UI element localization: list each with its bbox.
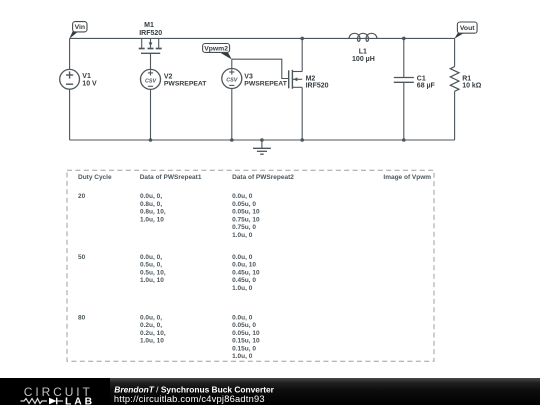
svg-text:68 µF: 68 µF — [417, 82, 436, 89]
label C1 value — [417, 75, 436, 89]
svg-text:LAB: LAB — [65, 396, 95, 405]
svg-text:PWSREPEAT: PWSREPEAT — [244, 81, 287, 88]
wire bottom rail — [70, 139, 455, 141]
svg-text:IRF520: IRF520 — [139, 30, 162, 37]
wire top rail — [70, 37, 455, 39]
svg-text:Vout: Vout — [460, 25, 475, 32]
svg-text:V1: V1 — [82, 73, 91, 80]
svg-text:0.2u, 10,: 0.2u, 10, — [140, 330, 166, 337]
resistor R1 — [450, 67, 459, 92]
svg-text:10 V: 10 V — [82, 81, 97, 88]
label V3 value — [244, 73, 287, 87]
svg-text:0.0u, 0,: 0.0u, 0, — [140, 193, 162, 200]
svg-text:0.0u, 0: 0.0u, 0 — [232, 314, 253, 321]
wire M2 source lead — [301, 87, 303, 140]
svg-text:CSV: CSV — [145, 79, 156, 85]
capacitor C1 — [394, 78, 414, 83]
wire V2 bottom lead — [150, 89, 152, 140]
label V1 value — [82, 73, 97, 87]
svg-text:0.0u, 10: 0.0u, 10 — [232, 262, 256, 269]
svg-text:80: 80 — [78, 314, 86, 321]
label M1 value — [139, 22, 162, 37]
svg-text:1.0u, 10: 1.0u, 10 — [140, 216, 164, 223]
svg-text:CSV: CSV — [226, 78, 237, 84]
svg-text:0.8u, 0,: 0.8u, 0, — [140, 201, 162, 208]
wire M2 drain lead — [301, 38, 303, 71]
ground — [253, 140, 271, 154]
source V2 — [141, 69, 161, 89]
label L1 value — [352, 48, 375, 63]
svg-text:M1: M1 — [144, 22, 154, 29]
svg-text:1.0u, 10: 1.0u, 10 — [140, 277, 164, 284]
svg-text:0.2u, 0,: 0.2u, 0, — [140, 322, 162, 329]
transistor M2 — [289, 70, 303, 89]
node junction bottom C1 — [402, 138, 406, 142]
svg-text:Data of PWSrepeat2: Data of PWSrepeat2 — [232, 174, 294, 181]
footer logo diode — [49, 398, 57, 405]
node junction bottom ground — [260, 138, 264, 142]
footer logo background — [0, 378, 110, 405]
svg-text:M2: M2 — [306, 75, 316, 82]
wire R1 bottom lead — [454, 91, 456, 140]
wire node Vpwm2 to M2 gate — [232, 59, 289, 78]
svg-text:L1: L1 — [359, 48, 367, 55]
node Vpwm2 flag — [203, 44, 232, 60]
wire V1 top lead — [69, 38, 71, 69]
svg-text:0.0u, 0: 0.0u, 0 — [232, 254, 253, 261]
label R1 value — [462, 75, 482, 89]
wire C1 bottom lead — [403, 82, 405, 140]
node junction top C1 — [402, 37, 406, 41]
inductor L1 — [349, 33, 377, 41]
svg-text:10 kΩ: 10 kΩ — [462, 82, 482, 89]
label V2 value — [164, 73, 207, 87]
svg-text:0.05u, 0: 0.05u, 0 — [232, 201, 256, 208]
footer logo resistor squiggle — [21, 399, 48, 404]
node Vin flag — [69, 22, 87, 39]
svg-text:0.05u, 10: 0.05u, 10 — [232, 330, 260, 337]
table headers — [78, 174, 431, 181]
svg-text:0.75u, 10: 0.75u, 10 — [232, 216, 260, 223]
svg-text:0.75u, 0: 0.75u, 0 — [232, 224, 256, 231]
table row 20 — [78, 193, 260, 239]
svg-text:Duty Cycle: Duty Cycle — [78, 174, 112, 181]
svg-text:http://circuitlab.com/c4vpj86a: http://circuitlab.com/c4vpj86adtn93 — [114, 394, 265, 404]
svg-text:0.15u, 10: 0.15u, 10 — [232, 338, 260, 345]
svg-text:0.15u, 0: 0.15u, 0 — [232, 345, 256, 352]
svg-text:0.5u, 0,: 0.5u, 0, — [140, 262, 162, 269]
svg-text:Image of Vpwm: Image of Vpwm — [383, 174, 431, 181]
svg-text:0.45u, 10: 0.45u, 10 — [232, 269, 260, 276]
wire V3 bottom lead — [231, 88, 233, 140]
svg-text:V3: V3 — [244, 73, 253, 80]
label M2 value — [306, 75, 329, 89]
node junction bottom M2 — [300, 138, 304, 142]
wire C1 top lead — [403, 38, 405, 77]
svg-text:0.05u, 10: 0.05u, 10 — [232, 209, 260, 216]
source V3 — [222, 69, 242, 89]
source V1 — [60, 69, 80, 89]
transistor M1 — [139, 38, 162, 53]
svg-text:0.5u, 10,: 0.5u, 10, — [140, 269, 166, 276]
svg-text:1.0u, 0: 1.0u, 0 — [232, 232, 253, 239]
svg-text:0.45u, 0: 0.45u, 0 — [232, 277, 256, 284]
svg-text:100 µH: 100 µH — [352, 56, 375, 63]
footer bar — [0, 378, 540, 405]
svg-text:20: 20 — [78, 193, 86, 200]
svg-text:V2: V2 — [164, 73, 173, 80]
node junction bottom V2 — [149, 138, 153, 142]
node Vout flag — [454, 22, 477, 39]
wire V3 top lead — [231, 59, 233, 68]
table row 50 — [78, 254, 260, 292]
wire M1 gate to V2 — [150, 53, 152, 69]
wire R1 top lead — [454, 38, 456, 66]
svg-text:Vpwm2: Vpwm2 — [204, 46, 228, 53]
svg-text:1.0u, 10: 1.0u, 10 — [140, 338, 164, 345]
svg-text:IRF520: IRF520 — [306, 82, 329, 89]
svg-text:0.05u, 0: 0.05u, 0 — [232, 322, 256, 329]
svg-text:1.0u, 0: 1.0u, 0 — [232, 353, 253, 360]
svg-text:0.0u, 0,: 0.0u, 0, — [140, 314, 162, 321]
svg-text:1.0u, 0: 1.0u, 0 — [232, 285, 253, 292]
svg-text:0.8u, 10,: 0.8u, 10, — [140, 209, 166, 216]
svg-text:50: 50 — [78, 254, 86, 261]
svg-text:0.0u, 0,: 0.0u, 0, — [140, 254, 162, 261]
node junction top M2 — [300, 37, 304, 41]
table row 80 — [78, 314, 260, 360]
svg-text:PWSREPEAT: PWSREPEAT — [164, 81, 207, 88]
wire V1 bottom lead — [69, 89, 71, 140]
svg-text:Vin: Vin — [75, 24, 85, 31]
table dashed border — [67, 170, 434, 361]
svg-text:0.0u, 0: 0.0u, 0 — [232, 193, 253, 200]
svg-text:Data of PWSrepeat1: Data of PWSrepeat1 — [140, 174, 202, 181]
node junction bottom V3 — [230, 138, 234, 142]
